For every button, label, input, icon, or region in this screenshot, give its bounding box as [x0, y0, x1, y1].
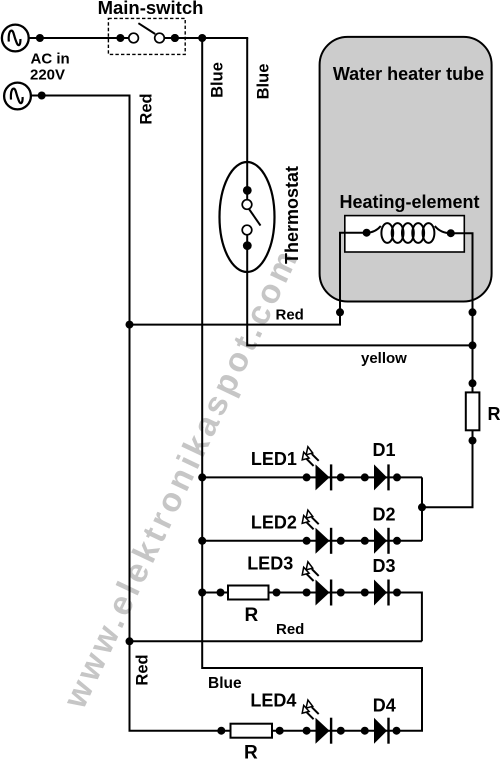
svg-text:D4: D4	[373, 696, 396, 716]
svg-text:LED4: LED4	[250, 691, 296, 711]
diode D2	[374, 528, 390, 554]
svg-text:AC in: AC in	[31, 51, 70, 68]
AC source V1	[2, 25, 29, 52]
svg-text:R: R	[488, 404, 500, 424]
junction dot cathode bus	[418, 503, 426, 511]
junction dot resistor bottom	[469, 437, 477, 445]
LED4	[302, 700, 332, 744]
svg-text:Water heater tube: Water heater tube	[333, 64, 484, 84]
svg-text:Thermostat: Thermostat	[282, 166, 302, 264]
wire: thermostat bottom to yellow wire	[247, 236, 472, 345]
LED3	[302, 562, 332, 606]
wire: LED1 row	[202, 476, 422, 478]
LED1	[302, 447, 332, 491]
svg-text:D2: D2	[373, 505, 396, 525]
junction dot	[36, 34, 44, 42]
diode D1	[374, 464, 390, 490]
svg-text:Red: Red	[134, 654, 152, 685]
wire: cathode bus D1-D2	[421, 477, 423, 540]
diode D3	[374, 580, 390, 606]
wire: AC source 1 to switch	[29, 37, 129, 39]
AC source V2	[4, 83, 31, 110]
thermostat TH1	[220, 162, 275, 272]
junction dot node blue bus top	[198, 34, 206, 42]
wire: LED2 row	[202, 540, 422, 542]
junction dot	[38, 92, 46, 100]
wire: red bus vertical	[129, 96, 131, 731]
diode D4	[374, 718, 390, 744]
wire: LED4 row	[129, 730, 397, 732]
junction dot yellow/right lead	[469, 341, 477, 349]
svg-text:D1: D1	[373, 440, 396, 460]
junction dot	[171, 34, 179, 42]
svg-text:yellow: yellow	[361, 350, 407, 367]
junction dots LED1 row	[198, 473, 401, 481]
wire: red1 horizontal (AC2 to heating element left lead)	[130, 233, 367, 325]
svg-text:Red: Red	[276, 621, 304, 638]
svg-text:R: R	[245, 605, 259, 626]
svg-text:Blue: Blue	[209, 62, 227, 98]
wire: switch to corner	[164, 37, 248, 39]
LED2	[302, 510, 332, 554]
junction dot heater left terminal	[336, 308, 344, 316]
svg-text:LED3: LED3	[247, 554, 293, 574]
wire: LED3 row	[202, 593, 422, 642]
svg-text:Red: Red	[276, 307, 304, 324]
resistor R (right)	[466, 392, 480, 430]
svg-text:Blue: Blue	[208, 675, 242, 692]
wire: AC source 2 lead	[31, 95, 131, 97]
svg-text:220V: 220V	[30, 67, 65, 84]
svg-text:R: R	[244, 743, 258, 759]
heating element box	[345, 216, 465, 252]
wire: thermostat branch from top wire	[246, 38, 248, 198]
svg-text:D3: D3	[373, 556, 396, 576]
resistor R (LED4 row)	[231, 724, 273, 738]
heating element coil L1	[363, 223, 455, 243]
junction dot heater right terminal	[469, 308, 477, 316]
wire: blue bus (switch to LED rows, bottom to D4)	[202, 38, 422, 731]
wire: red2 horizontal	[130, 640, 422, 642]
junction dots LED3 row	[198, 589, 401, 597]
junction dot red bus / red2	[126, 637, 134, 645]
junction dot resistor top	[469, 379, 477, 387]
main switch S1	[108, 18, 185, 54]
resistor R (LED3 row)	[228, 586, 269, 600]
junction dots LED4 row	[217, 727, 400, 735]
svg-text:LED1: LED1	[251, 449, 297, 469]
junction dots LED2 row	[198, 537, 401, 545]
junction dot red bus / red1	[126, 321, 134, 329]
svg-text:Red: Red	[138, 93, 156, 124]
wire: heating element right lead down	[451, 233, 473, 392]
svg-text:Blue: Blue	[255, 64, 273, 100]
svg-text:Heating-element: Heating-element	[339, 192, 479, 212]
svg-text:Main-switch: Main-switch	[98, 0, 204, 18]
water heater tube	[320, 37, 492, 302]
svg-text:LED2: LED2	[251, 512, 297, 532]
wire: resistor bottom to cathode bus	[422, 430, 473, 507]
